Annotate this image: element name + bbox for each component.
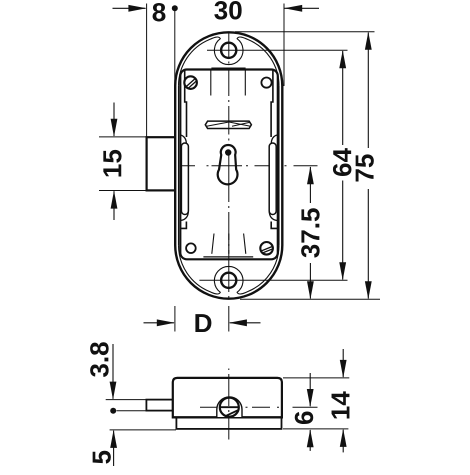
left rail: bottom step notch [181,222,187,229]
dim 8/30: dot terminator [172,5,178,11]
ext line bolt bottom [99,190,146,192]
arrow down (above) [111,103,118,137]
case bottom thick line [173,416,282,418]
dim 30: right arrow [284,5,319,12]
crosshair line through top screw hole (64 extension) [207,49,348,51]
inner thin contour: right side [278,86,280,245]
top-right small hole [261,78,271,88]
dim 15 label [103,150,121,177]
side view horizontal centerline [200,406,318,408]
left rail: top hook arc [181,135,187,144]
case inner vertical line right (top) [244,69,246,96]
dim 8: extension line at bolt edge [146,4,148,137]
nut circle [220,398,239,417]
side base plate [176,417,281,429]
nut housing arch [217,397,242,417]
dim 30 label [214,1,241,20]
right rail: capsule slot [269,143,276,215]
left rail: capsule slot [181,143,188,215]
latch slot [205,121,251,128]
outer stadium faceplate [175,32,282,298]
dim 8 label [153,3,166,22]
inner thin contour: left side [178,86,180,245]
case top middle step edge [211,67,245,69]
top screw hole [221,43,236,58]
bottom-left small hole [186,243,196,253]
inner thin contour top with eye cutout around top screw hole [179,37,280,86]
crosshair line through bottom screw hole (64 extension) [199,279,347,281]
lock case (rounded rectangle) [180,70,277,260]
right rail: bottom hook arc [269,211,277,221]
case inner tick lines (bottom, three) [212,234,214,254]
side view vertical centerline [228,369,230,440]
right rail: bottom step notch [271,222,277,229]
right rail: upper vertical line [271,70,273,138]
ext line bolt top [99,136,146,138]
side body [173,378,282,418]
dot terminator at bolt bottom line [110,408,116,414]
left rail: upper vertical line [185,70,187,138]
dim 8: left arrow [113,5,147,12]
bottom extension line (75 / 37.5) [240,298,380,300]
latch slot diagonals [207,122,251,126]
case bottom middle recess line [203,256,253,258]
inner thin contour bottom with eye cutout around bottom screw hole [179,245,280,294]
bottom screw hole [221,273,236,288]
vertical centerline extension to D dim [228,306,230,332]
top extension line (75) [235,31,375,33]
keyhole [218,145,238,184]
extension line at plate right edge (30) [283,4,285,87]
case inner vertical line left (top) [210,69,212,96]
left rail: bottom hook arc [181,211,189,221]
arrow up (below) [111,191,118,220]
right rail: top hook arc [271,135,277,144]
bolt (front view, protruding left) [147,137,176,190]
horizontal centerline through keyhole [180,165,318,167]
nut chord [225,410,238,416]
extension line at plate left edge [174,10,176,86]
nut diameter line [220,406,239,408]
keyhole center dot [225,149,231,155]
vertical centerline (front view) [228,34,230,299]
side bolt [146,400,172,411]
